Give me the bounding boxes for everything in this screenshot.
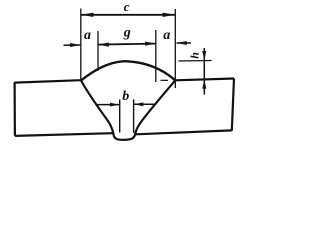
svg-text:g: g xyxy=(123,26,131,41)
svg-text:h: h xyxy=(188,52,202,59)
svg-text:a: a xyxy=(84,28,91,43)
svg-text:c: c xyxy=(124,0,130,14)
svg-text:b: b xyxy=(122,89,129,104)
svg-text:a: a xyxy=(163,28,170,43)
